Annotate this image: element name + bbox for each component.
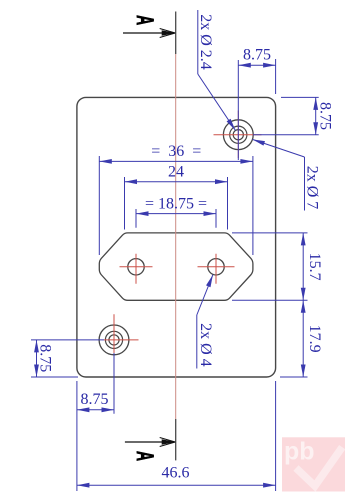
svg-text:2x Ø 4: 2x Ø 4 xyxy=(197,323,214,367)
dimension 18.75 line xyxy=(136,213,216,215)
leader 2x Dia 2.4 xyxy=(197,10,199,74)
dimension 8.75 left extension lines xyxy=(31,339,104,341)
hole bottom-left outer circle xyxy=(99,325,129,355)
section arrow top xyxy=(123,32,175,34)
hole top-right outer circle xyxy=(223,120,253,150)
dimension 8.75 top extension lines xyxy=(237,60,239,160)
svg-text:8.75: 8.75 xyxy=(37,344,54,372)
svg-text:2x Ø 7: 2x Ø 7 xyxy=(304,166,321,210)
dimension 8.75 bottom line xyxy=(77,409,114,411)
dimension 8.75 left line xyxy=(36,340,38,377)
svg-text:pb: pb xyxy=(284,438,315,466)
dimension 24 extension lines xyxy=(124,177,126,230)
svg-text:24: 24 xyxy=(168,164,184,181)
svg-text:8.75: 8.75 xyxy=(81,391,109,408)
dimension 8.75 bottom extension line xyxy=(113,353,115,414)
dimension 8.75 top line xyxy=(238,64,275,66)
dimension 8.75 right extension lines xyxy=(281,96,319,98)
hole bottom-left crosshair xyxy=(104,339,139,341)
pb logo watermark square xyxy=(282,437,345,491)
svg-text:46.6: 46.6 xyxy=(162,465,190,482)
dimension 46.6 line xyxy=(77,484,276,486)
svg-text:A: A xyxy=(131,15,158,25)
section line bottom xyxy=(175,419,177,460)
dimension 18.75 extension lines xyxy=(135,209,137,228)
svg-text:15.7: 15.7 xyxy=(306,253,323,281)
leader 2x Dia 7 xyxy=(304,157,306,211)
hole bottom-left inner circle xyxy=(109,335,119,345)
pin hole left crosshair xyxy=(120,266,153,268)
pin hole right crosshair xyxy=(198,266,235,268)
svg-text:= 18.75 =: = 18.75 = xyxy=(145,196,207,213)
dimension 15.7 extension lines xyxy=(232,232,308,234)
svg-text:8.75: 8.75 xyxy=(317,102,334,130)
svg-text:2x Ø 2.4: 2x Ø 2.4 xyxy=(197,14,214,70)
dimension 17.9 line xyxy=(302,300,304,377)
svg-text:8.75: 8.75 xyxy=(243,47,271,64)
pb logo checkmark xyxy=(296,447,342,486)
pin hole right circle xyxy=(208,259,224,275)
hole top-right inner circle xyxy=(233,130,243,140)
svg-text:= 36 =: = 36 = xyxy=(151,143,201,160)
section arrow bottom xyxy=(125,441,175,443)
pin hole left circle xyxy=(128,259,144,275)
dimension 24 line xyxy=(125,181,228,183)
dimension 36 extension lines xyxy=(98,156,100,255)
plate outline xyxy=(77,97,276,377)
svg-text:17.9: 17.9 xyxy=(306,325,323,353)
centerline vertical xyxy=(175,54,177,419)
europlug cutout xyxy=(99,233,253,300)
dimension 17.9 extension line xyxy=(280,376,308,378)
dimension 46.6 extension lines xyxy=(76,381,78,491)
svg-text:A: A xyxy=(131,451,158,461)
hole top-right crosshair xyxy=(214,134,262,136)
hole top-right middle circle xyxy=(230,126,247,143)
dimension 8.75 right line xyxy=(315,97,317,134)
section line top xyxy=(175,12,177,55)
leader 2x Dia 4 xyxy=(196,315,198,369)
dimension 15.7 line xyxy=(302,233,304,300)
dimension 36 line xyxy=(99,160,253,162)
hole bottom-left middle circle xyxy=(105,331,122,348)
